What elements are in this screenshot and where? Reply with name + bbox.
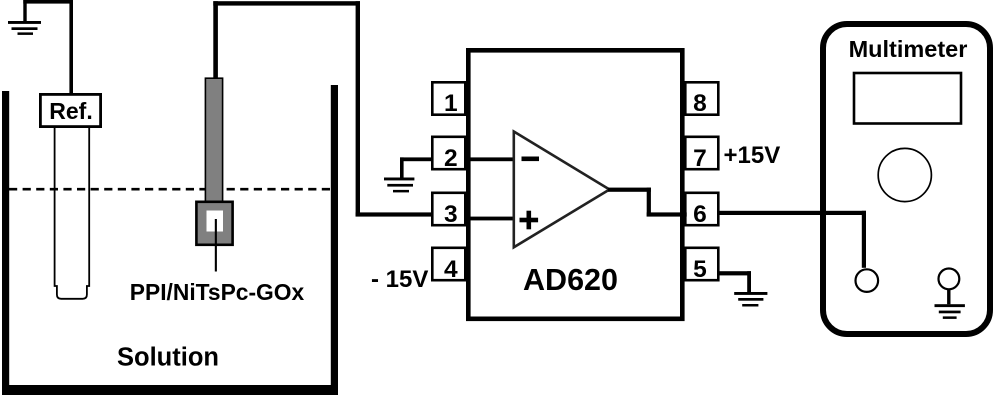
svg-text:Solution: Solution <box>117 344 219 372</box>
working electrode block <box>196 202 232 245</box>
svg-text:5: 5 <box>693 256 707 283</box>
ground at pin 2 <box>384 157 433 192</box>
pin 6 <box>685 193 718 228</box>
wire ground to Ref box <box>23 0 73 94</box>
pin 4 <box>432 248 465 283</box>
Ref electrode tube <box>55 128 90 299</box>
working electrode rod <box>205 78 222 202</box>
wire pin3 to op-amp plus <box>468 217 514 221</box>
svg-text:Multimeter: Multimeter <box>849 36 968 62</box>
right terminal ground stem <box>947 289 950 304</box>
pin 5 <box>685 248 718 283</box>
plus input <box>520 211 539 230</box>
svg-text:8: 8 <box>693 90 707 117</box>
beaker bottom <box>2 385 338 395</box>
wire pin6 to multimeter <box>718 211 866 268</box>
multimeter body <box>823 24 990 334</box>
svg-text:- 15V: - 15V <box>371 266 428 293</box>
pin 3 <box>432 193 465 228</box>
pin 1 <box>432 82 465 117</box>
ground (reference electrode) <box>8 0 41 35</box>
pointer wire to label <box>215 219 217 272</box>
svg-text:1: 1 <box>444 90 458 117</box>
svg-text:+15V: +15V <box>724 142 781 169</box>
wire working electrode to pin 3 <box>213 1 432 216</box>
white window <box>207 211 224 232</box>
wire pin2 to op-amp minus <box>468 157 514 161</box>
svg-text:7: 7 <box>693 145 707 172</box>
multimeter display <box>854 73 961 124</box>
svg-text:AD620: AD620 <box>523 263 618 297</box>
svg-text:2: 2 <box>444 145 458 172</box>
svg-text:PPI/NiTsPc-GOx: PPI/NiTsPc-GOx <box>130 279 305 305</box>
beaker right wall <box>331 85 338 395</box>
multimeter dial <box>878 148 931 201</box>
multimeter right terminal <box>939 269 960 290</box>
pin 8 <box>685 82 718 117</box>
Ref box <box>40 94 100 126</box>
wire pin5 to ground <box>718 271 751 292</box>
dashed solution level line <box>9 188 331 191</box>
AD620 body <box>468 50 682 319</box>
svg-text:Ref.: Ref. <box>49 98 92 124</box>
svg-text:4: 4 <box>444 256 458 283</box>
beaker left wall <box>2 91 9 395</box>
pin 2 <box>432 137 465 172</box>
pin 7 <box>685 137 718 172</box>
ground at pin 5 <box>734 292 767 307</box>
svg-text:6: 6 <box>693 201 707 228</box>
op-amp triangle <box>514 132 610 248</box>
op-amp output wire to pin 6 <box>608 188 687 217</box>
multimeter left terminal <box>856 269 879 292</box>
svg-text:3: 3 <box>444 201 458 228</box>
ground at right terminal <box>935 304 965 319</box>
minus input <box>522 157 540 162</box>
